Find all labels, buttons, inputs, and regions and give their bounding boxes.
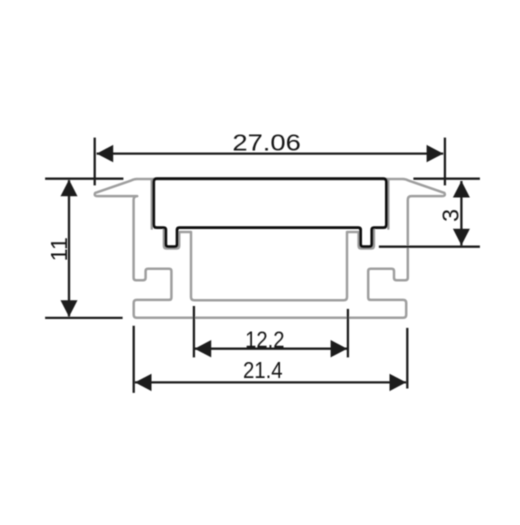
cover / diffuser dark outline (154, 179, 387, 247)
aluminium profile outer outline (95, 179, 445, 318)
11 ticks (45, 178, 123, 180)
arrowheads (61, 145, 470, 391)
12.2 extension lines (193, 306, 195, 357)
11 arrows (61, 180, 78, 197)
svg-text:27.06: 27.06 (232, 129, 301, 155)
profile inner channel with leg slots (164, 229, 374, 301)
3 arrows (453, 181, 470, 198)
dimension texts (46, 129, 464, 383)
svg-text:11: 11 (46, 237, 72, 261)
21.4 dimension line (135, 381, 406, 383)
21.4 extension lines (133, 326, 135, 393)
svg-text:12.2: 12.2 (245, 327, 284, 353)
profile cover-seat side walls (151, 181, 154, 229)
27.06 arrows (97, 145, 114, 162)
12.2 arrows (195, 340, 212, 357)
11 dimension line (68, 180, 70, 316)
dimensions (45, 138, 480, 393)
svg-text:21.4: 21.4 (243, 357, 283, 383)
svg-text:3: 3 (438, 209, 464, 222)
27.06 dimension line (97, 152, 444, 154)
12.2 dimension line (195, 348, 348, 350)
3 ticks (413, 178, 480, 180)
3 dimension line (460, 181, 462, 245)
27.06 extension lines (94, 138, 96, 186)
21.4 arrows (135, 374, 152, 391)
